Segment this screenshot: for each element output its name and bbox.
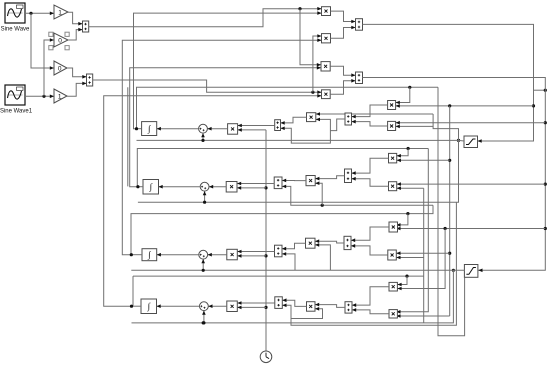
row4 box right edge — [423, 188, 425, 323]
wire mux to product row3 — [237, 251, 274, 253]
junction return wire row2 — [203, 201, 206, 204]
sum block Add2 — [87, 74, 93, 86]
wire Sine Wave1 to gain K22 — [25, 95, 54, 97]
mux block row3 — [275, 245, 283, 257]
wire P1 to AddT1 — [331, 11, 356, 21]
wire to M3b bottom input — [396, 257, 423, 259]
wire state x1 up to product P1 — [134, 13, 322, 129]
wire pmid to mux row3 — [282, 243, 306, 249]
saturation block Sat2 — [464, 265, 478, 278]
junction on bridge — [544, 89, 547, 92]
wire P2 to AddT1 — [331, 28, 356, 39]
junction on Sine Wave1 output — [42, 95, 45, 98]
wire product to circle row3 — [208, 254, 227, 256]
wire integrator output row1 — [137, 128, 142, 130]
product block row3 mid — [306, 238, 316, 248]
sum junction circle row2 — [200, 182, 209, 191]
junction return wire row1 — [201, 139, 204, 142]
wire M2a to sumR top — [352, 158, 389, 173]
row2 box right edge to M4b top — [396, 149, 428, 312]
wire Add1 output to product P1 — [89, 9, 322, 27]
junction row4 top edge — [405, 275, 408, 278]
row1 outer loop — [438, 87, 465, 335]
mux4 bottom feed net — [282, 305, 322, 318]
product block row2 main — [226, 182, 237, 193]
junction Sat1 output — [457, 139, 460, 142]
junction integrator output row2 — [136, 185, 139, 188]
wire mux to product row4 — [237, 302, 274, 304]
junction AddT2 net b1 — [544, 121, 547, 124]
wire pmid to mux row1 — [281, 117, 307, 123]
wire pmid to mux row4 — [282, 300, 306, 306]
junction return wire row3 — [202, 269, 205, 272]
wire Sine Wave branch to gain K21 — [31, 13, 54, 68]
wire branch to M3a bottom input — [396, 228, 545, 230]
junction M4a feed — [444, 227, 447, 230]
branch to pmid3 bottom — [315, 245, 330, 270]
product block P3 — [321, 62, 330, 71]
clock to product1 bottom — [238, 129, 266, 131]
wire M1a to sumR top — [352, 105, 388, 117]
wire Sat1 return row1 — [137, 139, 465, 142]
wire branch to M1a bottom input — [396, 105, 534, 107]
sum block Add1 — [83, 21, 89, 32]
wire circle to integrator row1 — [157, 128, 199, 130]
gain K22 value 1 — [54, 89, 67, 103]
wire Add2 branch to product P2 — [313, 36, 322, 92]
gain K21 value 0 — [54, 61, 67, 75]
wire to M3b top input — [396, 252, 449, 254]
wire return up to circle row4 — [203, 311, 205, 323]
wire product to circle row1 — [207, 128, 227, 130]
mux3 bottom feed net — [282, 254, 295, 270]
row3 box top edge — [131, 205, 433, 255]
junction clock on row4 return — [202, 321, 205, 324]
saturation block Sat1 — [464, 136, 478, 148]
wire sumR to pmid row4 — [315, 305, 345, 308]
product block M4b — [389, 310, 397, 318]
wire parallel bus x127.8 — [127, 87, 129, 186]
product block row1 mid — [307, 113, 316, 122]
svg-text:0: 0 — [58, 37, 62, 44]
wire sumR to pmid row2 — [315, 176, 344, 179]
wire Add2 output to product P4 — [93, 80, 322, 92]
junction row3 top edge — [406, 212, 409, 215]
junction feed M3b — [448, 252, 451, 255]
product block M4a — [389, 282, 397, 291]
mux block row2 — [274, 177, 282, 189]
wire M3b to sumR bottom — [351, 246, 388, 255]
clock to product2 bottom — [237, 187, 266, 189]
wire circle to integrator row2 — [159, 186, 201, 188]
gain K12 value 0 (selected) — [49, 32, 69, 50]
product block P2 — [322, 34, 331, 43]
sum junction circle row3 — [199, 250, 208, 259]
product block M1a — [388, 101, 396, 110]
wire to M2b bottom input — [397, 187, 424, 189]
junction return wire row4 — [202, 321, 205, 324]
wire P3 to AddT2 — [330, 66, 355, 75]
junction AddT2 net b2 — [544, 183, 547, 186]
product block P4 — [322, 90, 331, 99]
wire integrator output row3 — [131, 254, 142, 256]
wire gain K22 to Add2 — [67, 83, 87, 96]
wire product to circle row2 — [209, 186, 226, 188]
junction AddT1 net — [532, 104, 535, 107]
clock block — [260, 351, 272, 363]
junction mux2 net — [321, 204, 324, 207]
branch to M1a top input — [396, 87, 410, 102]
mux1 bottom feed net — [281, 119, 331, 143]
wire mux to product row1 — [238, 125, 275, 127]
wire circle to integrator row3 — [157, 254, 199, 256]
product block P1 — [322, 7, 331, 16]
wire M1b to sumR bottom — [352, 122, 388, 126]
sum block row4 right — [345, 302, 352, 313]
branch to M4a top input — [397, 276, 407, 284]
wire to M4b bottom input — [396, 315, 449, 317]
product block M1b — [388, 121, 396, 130]
source block Sine Wave1 — [0, 85, 33, 115]
wire pmid to mux row2 — [282, 180, 306, 182]
wire to M4a bottom input — [397, 229, 445, 289]
product block row1 main — [228, 124, 238, 135]
wire branch to M1b top input — [396, 122, 546, 124]
sum block AddT1 — [356, 19, 363, 31]
wire product to circle row4 — [208, 305, 227, 307]
wire Sat2 return row3 — [131, 269, 465, 271]
wire M4b to sumR bottom — [352, 310, 389, 314]
integrator row3 — [142, 249, 157, 261]
wire return up to circle row2 — [204, 191, 206, 202]
wire Add1 branch to product P3 — [300, 9, 321, 65]
junction AddT2 net b3 — [544, 227, 547, 230]
sum junction circle row1 — [199, 124, 208, 133]
wire Sat1 return row2 — [138, 140, 459, 202]
wire Sine Wave1 branch to gain K12 — [44, 40, 54, 96]
wire state x3 up to product P2 — [122, 40, 321, 255]
junction Add2 net — [311, 91, 314, 94]
wire state x4 up to product P4 — [104, 96, 322, 306]
sum junction circle row4 — [200, 302, 209, 311]
clock signal vertical — [265, 130, 267, 351]
row1 bus top edge — [137, 87, 439, 128]
wire P4 to AddT2 — [330, 81, 355, 95]
mux2 bottom feed net — [282, 186, 433, 205]
svg-text:1: 1 — [58, 93, 62, 100]
product block row4 mid — [307, 302, 316, 312]
wire integrator output row4 — [132, 305, 142, 307]
wire AddT2 to Sat2 right loop — [363, 78, 546, 271]
wire gain K12 to Add1 — [68, 30, 83, 40]
row4 box left edge — [132, 276, 134, 306]
wire branch to M2b top input — [397, 183, 546, 185]
row3 box right edge — [291, 202, 456, 325]
product block M3b — [388, 250, 397, 260]
junction integrator output row1 — [135, 127, 138, 130]
wire to M1b bottom input — [396, 114, 434, 126]
junction feed M2a — [448, 159, 451, 162]
product block M3a — [389, 222, 398, 232]
wire integrator output row2 — [138, 186, 143, 188]
bridge wire top right — [534, 89, 546, 91]
svg-text:1: 1 — [58, 9, 62, 16]
integrator row1 — [142, 122, 157, 136]
sum block AddT2 — [356, 72, 363, 84]
wire Sat1 up branch to M1b bottom — [433, 126, 458, 140]
junction Sat2 output — [452, 269, 455, 272]
svg-text:0: 0 — [58, 65, 62, 72]
junction clock row3 — [264, 254, 267, 257]
row2 box top edge — [137, 149, 428, 187]
branch to pmid2 bottom — [315, 183, 322, 205]
wire Sine Wave to gain K11 — [25, 12, 54, 14]
wire AddT1 to Sat1 top right loop — [363, 24, 534, 141]
wire to M2a bottom input — [397, 159, 450, 161]
wire return up to circle row3 — [202, 259, 204, 270]
wire M3a to sumR top — [351, 227, 389, 240]
product block row4 main — [227, 301, 238, 312]
product block M2a — [389, 153, 397, 163]
wire mux to product row2 — [237, 183, 274, 185]
gain K11 value 1 — [54, 5, 68, 19]
wire gain K21 to Add2 — [67, 68, 87, 77]
junction M1a line — [448, 104, 451, 107]
wire Sat2 return row4 — [132, 270, 454, 323]
svg-text:Sine Wave1: Sine Wave1 — [0, 109, 33, 115]
mux block row4 — [275, 297, 283, 309]
junction Add1 net — [298, 7, 301, 10]
sum block row2 right — [345, 169, 352, 183]
product block row3 main — [227, 249, 238, 259]
clock to product4 bottom — [237, 306, 266, 308]
branch to M2a top input — [397, 149, 408, 156]
sum block row3 right — [344, 236, 351, 249]
clock to product3 bottom — [237, 255, 266, 257]
svg-text:Sine Wave: Sine Wave — [1, 27, 30, 33]
junction integrator output row4 — [130, 305, 133, 308]
wire state x2 up to product P3 — [130, 68, 321, 187]
junction integrator output row3 — [130, 253, 133, 256]
wire gain K11 to Add1 — [68, 12, 83, 23]
sum block row1 right — [345, 113, 352, 125]
feed vertical chain — [449, 106, 451, 316]
source block Sine Wave — [1, 3, 30, 33]
product block row2 mid — [306, 176, 315, 186]
wire sumR1 output joins feed net — [330, 119, 345, 131]
wire circle to integrator row4 — [157, 305, 200, 307]
wire M2b to sumR bottom — [352, 179, 389, 187]
product block M2b — [389, 182, 397, 191]
wire M4a to sumR top — [352, 287, 389, 305]
row4 box top edge — [133, 275, 424, 277]
mux block row1 — [275, 120, 281, 131]
integrator row4 — [141, 299, 157, 314]
integrator row2 — [143, 180, 159, 195]
junction row1 top edge — [408, 86, 411, 89]
junction clock row2 — [264, 186, 267, 189]
wire return up to circle row1 — [202, 133, 204, 140]
junction on Sine Wave output — [29, 12, 32, 15]
junction row2 top edge — [407, 147, 410, 150]
branch to M3a top input — [396, 214, 408, 225]
wire to pmid1 top input — [316, 113, 433, 115]
wire sumR to pmid row3 — [315, 241, 344, 243]
junction clock row4 — [264, 306, 267, 309]
